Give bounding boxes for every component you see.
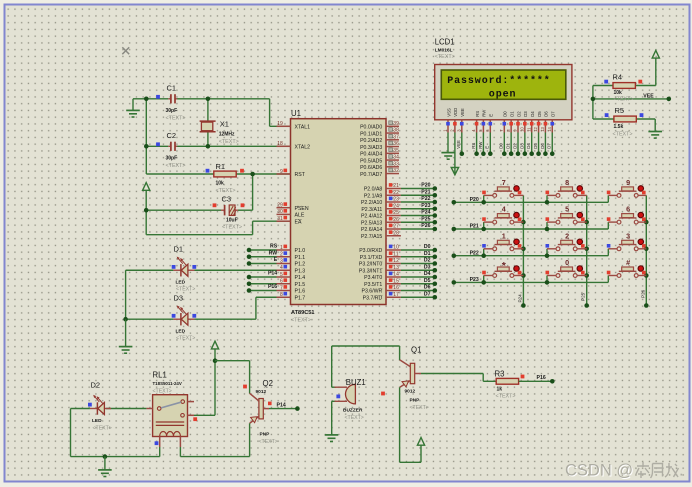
node	[144, 97, 149, 102]
wire net D2	[512, 133, 520, 157]
svg-text:D3: D3	[424, 264, 431, 270]
svg-text:12MHz: 12MHz	[219, 132, 235, 138]
svg-text:9012: 9012	[405, 389, 416, 395]
pin 36 P0.3/AD3	[360, 141, 399, 151]
button 8	[545, 178, 587, 205]
pin 25 P2.4/A12	[361, 210, 401, 220]
svg-text:P2.4/A12: P2.4/A12	[361, 214, 382, 220]
svg-text:13: 13	[393, 265, 399, 271]
LCD pin 14 D7	[547, 111, 556, 133]
svg-text:D2: D2	[516, 111, 521, 117]
svg-text:33: 33	[393, 161, 399, 167]
svg-text:Q1: Q1	[411, 345, 421, 354]
svg-text:10uF: 10uF	[226, 218, 238, 224]
svg-text:#: #	[626, 258, 630, 267]
svg-text:28: 28	[393, 230, 399, 236]
svg-text:R1: R1	[216, 162, 226, 171]
origin marker	[122, 47, 129, 54]
svg-text:Password:******: Password:******	[447, 75, 551, 87]
pin 17 P3.7/RD	[363, 292, 401, 302]
svg-text:<TEXT>: <TEXT>	[219, 139, 239, 145]
svg-text:36: 36	[393, 141, 399, 147]
node	[123, 317, 128, 322]
crystal X1	[200, 120, 239, 146]
transistor Q2	[243, 379, 278, 445]
wire	[593, 58, 656, 85]
svg-text:P0.6/AD6: P0.6/AD6	[360, 165, 382, 171]
wire net E	[247, 261, 277, 266]
capacitor C2	[156, 131, 185, 169]
svg-text:P16: P16	[268, 284, 277, 290]
button 6	[607, 205, 647, 229]
svg-text:P1.2: P1.2	[295, 262, 306, 268]
wire	[146, 99, 290, 127]
svg-text:8: 8	[280, 292, 283, 298]
wire	[215, 361, 250, 394]
svg-text:23: 23	[393, 197, 399, 203]
wire keypad row P21	[452, 224, 609, 232]
wire net P14	[268, 402, 300, 411]
svg-text:RW: RW	[478, 141, 483, 149]
svg-text:P22: P22	[421, 196, 430, 202]
wire	[207, 99, 209, 147]
wire net D4	[401, 271, 437, 279]
svg-text:D7: D7	[424, 291, 431, 297]
wire net P23	[401, 203, 437, 211]
wire net P14	[247, 275, 277, 280]
svg-text:PSEN: PSEN	[295, 206, 309, 212]
pin 19 XTAL1	[277, 121, 311, 130]
svg-text:Q2: Q2	[263, 379, 273, 388]
svg-text:P0.3/AD3: P0.3/AD3	[360, 145, 382, 151]
LED D2	[88, 381, 112, 432]
svg-text:5: 5	[280, 272, 283, 278]
LED D3	[172, 294, 197, 342]
ground	[325, 435, 339, 442]
svg-text:P1.6: P1.6	[295, 289, 306, 295]
svg-text:29: 29	[277, 203, 283, 209]
svg-text:D4: D4	[530, 111, 535, 117]
svg-text:D5: D5	[424, 278, 431, 284]
svg-text:R3: R3	[495, 370, 505, 379]
svg-text:VEE: VEE	[460, 108, 465, 117]
svg-text:3: 3	[280, 258, 283, 264]
wire	[146, 221, 290, 235]
svg-text:1: 1	[502, 231, 506, 240]
pin 24 P2.3/A11	[361, 203, 401, 213]
pin 29 PSEN	[277, 202, 309, 212]
svg-text:RS: RS	[471, 143, 476, 149]
wire net VEE	[591, 93, 671, 101]
svg-text:RST: RST	[295, 172, 306, 178]
LCD pin 7 D0	[499, 111, 508, 133]
button 1	[481, 231, 523, 258]
svg-text:9: 9	[626, 178, 630, 187]
LCD LCD1 LM016L	[435, 38, 572, 120]
watermark	[565, 462, 684, 480]
svg-text:P3.7/RD: P3.7/RD	[363, 295, 383, 301]
svg-text:P16: P16	[537, 375, 546, 381]
svg-text:P20: P20	[470, 197, 479, 203]
svg-text:E: E	[274, 257, 278, 263]
button 2	[545, 231, 587, 258]
svg-text:2: 2	[565, 231, 569, 240]
wire net D6	[540, 133, 548, 157]
pin 9 RST	[277, 169, 306, 179]
svg-text:P1.7: P1.7	[295, 295, 306, 301]
svg-text:6: 6	[280, 279, 283, 285]
svg-text:D0: D0	[499, 143, 504, 149]
wire	[106, 408, 146, 410]
pin 7 P1.6	[277, 285, 306, 295]
svg-text:<TEXT>: <TEXT>	[435, 54, 455, 60]
svg-text:2: 2	[280, 252, 283, 258]
svg-text:P0.4/AD4: P0.4/AD4	[360, 152, 382, 158]
svg-text:14: 14	[393, 272, 399, 278]
svg-text:P22: P22	[470, 250, 479, 256]
svg-text:P26: P26	[640, 289, 645, 298]
svg-text:12: 12	[533, 126, 538, 131]
svg-text:P2.2/A10: P2.2/A10	[361, 200, 382, 206]
pin 37 P0.2/AD2	[360, 134, 399, 144]
svg-text:P23: P23	[421, 203, 430, 209]
svg-text:13: 13	[540, 126, 545, 131]
wire net D7	[401, 291, 437, 299]
svg-text:7: 7	[502, 178, 506, 187]
svg-text:.: .	[679, 462, 684, 480]
svg-text:<TEXT>: <TEXT>	[291, 318, 311, 324]
pin 1 P1.0	[277, 245, 306, 255]
svg-text:D6: D6	[540, 143, 545, 149]
pin 14 P3.4/T0	[364, 272, 401, 282]
svg-text:24: 24	[393, 203, 399, 209]
svg-text:LED: LED	[92, 418, 102, 424]
svg-text:BUZ1: BUZ1	[346, 378, 366, 387]
LCD pin 12 D5	[533, 111, 542, 133]
svg-text:<TEXT>: <TEXT>	[93, 426, 112, 432]
pin 23 P2.2/A10	[361, 197, 401, 207]
resistor R4	[604, 73, 642, 103]
relay RL1	[146, 371, 197, 448]
svg-text:P2.7/A15: P2.7/A15	[361, 234, 382, 240]
wire net D7	[547, 133, 555, 157]
wire net P16	[421, 374, 496, 382]
svg-text:AT89C51: AT89C51	[291, 310, 315, 316]
svg-text:18: 18	[277, 141, 283, 147]
svg-text:12: 12	[393, 258, 399, 264]
svg-text:5: 5	[565, 205, 569, 214]
wire	[592, 86, 594, 120]
svg-text:P21: P21	[470, 224, 479, 230]
svg-text:25: 25	[393, 210, 399, 216]
wire keypad column P24	[517, 195, 525, 307]
wire	[146, 145, 290, 147]
svg-text:D2: D2	[424, 258, 431, 264]
svg-text:D6: D6	[424, 285, 431, 291]
svg-text:30: 30	[277, 209, 283, 215]
svg-text:XTAL2: XTAL2	[295, 145, 311, 151]
svg-text:D7: D7	[551, 111, 556, 117]
ground	[648, 132, 662, 139]
button 3	[607, 231, 647, 255]
wire net D3	[519, 133, 527, 157]
wire	[593, 119, 655, 132]
svg-text:11: 11	[526, 127, 531, 132]
svg-text:30pF: 30pF	[166, 156, 178, 162]
svg-text:P25: P25	[421, 216, 430, 222]
svg-text:D1: D1	[424, 251, 431, 257]
LCD pin 9 D2	[513, 111, 522, 133]
svg-text:R5: R5	[615, 106, 625, 115]
svg-text:<TEXT>: <TEXT>	[153, 389, 172, 395]
pin 39 P0.0/AD0	[360, 121, 399, 131]
svg-text:P14: P14	[277, 403, 286, 409]
wire net P22	[401, 196, 437, 204]
svg-text:P14: P14	[268, 271, 277, 277]
svg-text:38: 38	[393, 128, 399, 134]
svg-text:D3: D3	[174, 294, 184, 303]
svg-text:LED: LED	[176, 280, 186, 286]
svg-text:RS: RS	[475, 111, 480, 117]
svg-text:P0.1/AD1: P0.1/AD1	[360, 131, 382, 137]
svg-text:C2: C2	[167, 131, 177, 140]
node	[206, 97, 211, 102]
svg-text:PNP: PNP	[260, 432, 271, 438]
power VCC	[652, 50, 659, 58]
svg-text:P0.0/AD0: P0.0/AD0	[360, 125, 382, 131]
wire net D4	[526, 133, 534, 157]
svg-text:D3: D3	[523, 111, 528, 117]
power VCC	[417, 438, 424, 446]
ground	[98, 457, 112, 477]
svg-text:22: 22	[393, 190, 399, 196]
svg-text:XTAL1: XTAL1	[295, 125, 311, 131]
svg-text:8: 8	[565, 178, 569, 187]
capacitor C3	[213, 195, 245, 231]
wire	[519, 375, 555, 384]
wire net P21	[401, 189, 437, 197]
svg-text:P3.0/RXD: P3.0/RXD	[359, 248, 382, 254]
pin 16 P3.6/WR	[362, 285, 401, 295]
wire	[146, 174, 252, 210]
pin 34 P0.5/AD5	[360, 155, 399, 165]
node	[103, 454, 108, 459]
svg-text:0: 0	[565, 258, 569, 267]
wire	[71, 409, 160, 457]
pin 11 P3.1/TXD	[360, 251, 401, 261]
chip U1 AT89C51	[291, 109, 387, 324]
ground	[119, 319, 133, 353]
svg-text:P24: P24	[421, 210, 430, 216]
svg-text:C1: C1	[167, 84, 177, 93]
svg-text:P26: P26	[421, 223, 430, 229]
pin 6 P1.5	[277, 278, 306, 288]
svg-text:P2.3/A11: P2.3/A11	[361, 207, 382, 213]
svg-text:P1.5: P1.5	[295, 282, 306, 288]
LED D1	[172, 245, 197, 293]
wire	[180, 423, 249, 456]
svg-text:1: 1	[280, 245, 283, 251]
svg-text:D3: D3	[519, 143, 524, 149]
wire	[194, 414, 215, 416]
svg-text:E: E	[489, 114, 494, 117]
svg-text:30pF: 30pF	[166, 108, 178, 114]
svg-text:VDD: VDD	[453, 108, 458, 117]
wire net RS	[247, 248, 277, 253]
button 5	[545, 205, 587, 232]
svg-text:BUZZER: BUZZER	[343, 408, 363, 414]
svg-text:D2: D2	[91, 381, 101, 390]
pin 15 P3.5/T1	[364, 278, 401, 288]
pin 38 P0.1/AD1	[360, 128, 399, 138]
svg-text:D2: D2	[512, 143, 517, 149]
svg-text:P0.2/AD2: P0.2/AD2	[360, 138, 382, 144]
svg-text:VEE: VEE	[643, 93, 654, 99]
svg-text:P2.5/A13: P2.5/A13	[361, 220, 382, 226]
svg-text:P3.6/WR: P3.6/WR	[362, 289, 383, 295]
svg-text:EA: EA	[295, 219, 302, 225]
svg-text:P3.2/INT0: P3.2/INT0	[359, 262, 382, 268]
svg-text:X1: X1	[220, 120, 229, 129]
pin 3 P1.2	[277, 258, 306, 268]
wire keypad row P23	[452, 277, 609, 285]
svg-text:32: 32	[393, 168, 399, 174]
power VDD down arrow	[451, 133, 458, 175]
wire net D3	[401, 264, 437, 272]
resistor R5	[605, 106, 644, 138]
svg-text:10k: 10k	[614, 90, 623, 96]
svg-text:<TEXT>: <TEXT>	[166, 163, 186, 169]
wire net D5	[533, 133, 541, 157]
button 9	[607, 178, 647, 202]
pin 13 P3.3/INT1	[359, 265, 401, 275]
svg-text:7: 7	[280, 285, 283, 291]
svg-text:35: 35	[393, 148, 399, 154]
wire net D2	[401, 258, 437, 266]
wire keypad row P20	[452, 197, 609, 205]
svg-text:D0: D0	[503, 111, 508, 117]
pin 26 P2.5/A13	[361, 217, 401, 227]
wire	[126, 269, 291, 271]
button #	[607, 258, 647, 282]
svg-text:open: open	[489, 90, 517, 101]
pin 35 P0.4/AD4	[360, 148, 399, 158]
svg-text:RW: RW	[482, 109, 487, 117]
wire net D1	[401, 251, 437, 259]
svg-text:LED: LED	[176, 329, 186, 335]
LCD pin 11 D4	[526, 111, 535, 133]
ground	[126, 99, 146, 117]
svg-text:1.5k: 1.5k	[614, 124, 624, 130]
pin 21 P2.0/A8	[364, 183, 401, 193]
svg-text:10: 10	[393, 245, 399, 251]
svg-text:D1: D1	[174, 245, 184, 254]
svg-text:3: 3	[626, 231, 630, 240]
wire net D5	[401, 278, 437, 286]
svg-text:CSDN @: CSDN @	[565, 462, 633, 480]
transistor Q1	[381, 345, 429, 411]
svg-text:P3.3/INT1: P3.3/INT1	[359, 268, 382, 274]
resistor R3	[495, 370, 525, 400]
svg-text:RS: RS	[270, 244, 278, 250]
button 0	[545, 258, 587, 285]
pin 4 P1.3	[277, 265, 306, 275]
svg-text:RW: RW	[269, 250, 278, 256]
LCD text	[447, 75, 551, 101]
svg-text:4: 4	[502, 205, 506, 214]
svg-text:<TEXT>: <TEXT>	[410, 405, 429, 411]
wire net P26	[401, 223, 437, 231]
svg-text:10k: 10k	[216, 181, 225, 187]
wire	[331, 401, 333, 435]
wire net E	[485, 133, 493, 157]
svg-text:R4: R4	[613, 73, 623, 82]
wire net D1	[506, 133, 514, 157]
svg-text:D4: D4	[526, 143, 531, 149]
wire net D0	[401, 244, 437, 252]
pin 18 XTAL2	[277, 141, 311, 150]
svg-text:<TEXT>: <TEXT>	[176, 336, 195, 342]
wire	[125, 270, 127, 319]
node	[144, 144, 149, 149]
svg-text:P1.1: P1.1	[295, 255, 306, 261]
pin 32 P0.7/AD7	[360, 168, 399, 178]
svg-text:P0.5/AD5: P0.5/AD5	[360, 158, 382, 164]
svg-text:D1: D1	[506, 143, 511, 149]
svg-text:16: 16	[393, 285, 399, 291]
svg-text:9012: 9012	[256, 389, 267, 395]
svg-text:4: 4	[280, 265, 283, 271]
svg-text:21: 21	[393, 183, 399, 189]
svg-text:D4: D4	[424, 271, 431, 277]
wire	[146, 173, 290, 175]
svg-text:E: E	[485, 146, 490, 149]
wire	[400, 387, 421, 462]
wire	[331, 346, 333, 387]
svg-text:P2.6/A14: P2.6/A14	[361, 227, 382, 233]
buzzer BUZ1	[332, 378, 366, 421]
svg-text:RL1: RL1	[153, 371, 167, 380]
pin 5 P1.4	[277, 272, 306, 282]
svg-text:LM016L: LM016L	[435, 48, 453, 54]
svg-text:D7: D7	[547, 143, 552, 149]
svg-text:P24: P24	[517, 294, 522, 303]
svg-text:D0: D0	[424, 244, 431, 250]
wire net VEE	[456, 133, 464, 157]
LCD pin 8 D1	[506, 111, 515, 133]
LCD pin 4 RS	[471, 111, 480, 133]
svg-text:VEE: VEE	[456, 140, 461, 149]
svg-text:<TEXT>: <TEXT>	[345, 415, 364, 421]
pin 28 P2.7/A15	[361, 230, 401, 240]
wire net D0	[499, 133, 507, 157]
LCD pin 3 VEE	[456, 108, 465, 132]
wire keypad column P25	[581, 195, 589, 307]
svg-text:P3.1/TXD: P3.1/TXD	[360, 255, 383, 261]
wire net P25	[401, 216, 437, 224]
power VCC	[211, 341, 218, 415]
pin 2 P1.1	[277, 251, 306, 261]
svg-text:D6: D6	[544, 111, 549, 117]
svg-text:P2.0/A8: P2.0/A8	[364, 187, 383, 193]
svg-text:<TEXT>: <TEXT>	[496, 394, 516, 400]
wire	[332, 346, 400, 360]
svg-text:ALE: ALE	[295, 213, 305, 219]
pin 33 P0.6/AD6	[360, 161, 399, 171]
pin 10 P3.0/RXD	[359, 245, 401, 255]
wire	[145, 99, 147, 174]
svg-text:31: 31	[277, 216, 283, 222]
